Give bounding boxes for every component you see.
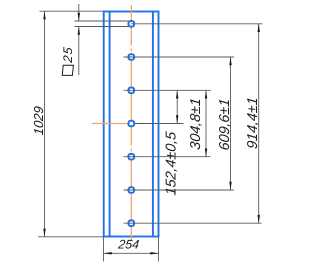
dimension line square-25 upper shaft xyxy=(78,4,80,21)
arrowhead square-25 lower xyxy=(78,27,80,35)
svg-text:152,4±0,5: 152,4±0,5 xyxy=(164,131,180,196)
arrowhead 1029 bottom xyxy=(43,229,45,237)
svg-text:254: 254 xyxy=(117,237,140,251)
svg-text:609,6±1: 609,6±1 xyxy=(217,98,233,151)
hole 3 xyxy=(129,88,135,94)
dimension line 609,6±1 (hole 2 to hole 6) xyxy=(230,57,232,190)
svg-text:304,8±1: 304,8±1 xyxy=(188,97,204,150)
square symbol of hole size label xyxy=(62,65,73,75)
arrowhead 609,6 top xyxy=(229,57,231,65)
arrowhead 254 left xyxy=(104,252,112,254)
horizontal centerline of hole 4 xyxy=(92,123,143,125)
extension line: hole 3 center xyxy=(124,89,211,91)
arrowhead 609,6 bottom xyxy=(229,182,231,190)
extension line: hole 1 square top edge xyxy=(75,20,132,22)
extension line: hole 4 center xyxy=(135,123,184,125)
extension line: part top edge xyxy=(40,10,104,12)
arrowhead 254 right xyxy=(150,252,158,254)
arrowhead 152,4 bottom xyxy=(176,115,178,123)
dimension line 1029 xyxy=(44,11,46,237)
hole 4 xyxy=(129,121,135,127)
extension line: part bottom edge xyxy=(38,236,104,238)
extension line: part left edge (254) xyxy=(103,237,105,262)
dimension line 254 xyxy=(104,252,159,254)
svg-text:25: 25 xyxy=(61,46,75,65)
hole 5 xyxy=(129,154,135,160)
extension line: hole 5 center xyxy=(124,156,211,158)
extension line: hole 6 center xyxy=(124,189,234,191)
arrowhead 304,8 top xyxy=(205,90,207,98)
extension line: hole 1 center xyxy=(131,23,263,25)
arrowhead square-25 upper xyxy=(78,13,80,21)
svg-text:1029: 1029 xyxy=(31,105,46,135)
hole 6 xyxy=(129,187,135,193)
arrowhead 152,4 top xyxy=(176,90,178,98)
vertical centerline through holes xyxy=(130,5,132,241)
dimension line 914,4±1 (hole 1 to hole 7) xyxy=(258,24,260,223)
arrowhead 914,4 top xyxy=(258,24,260,32)
extension line: hole 2 center xyxy=(124,56,235,58)
dimension line square-25 lower shaft xyxy=(78,27,80,76)
hole 2 xyxy=(129,54,135,60)
svg-text:914,4±1: 914,4±1 xyxy=(245,96,261,149)
bend line right xyxy=(152,12,154,237)
dimension line 152,4±0,5 (hole 3 to hole 4) xyxy=(176,90,178,123)
arrowhead 914,4 bottom xyxy=(258,215,260,223)
hole 1 (square 25) xyxy=(129,21,135,27)
bend line left xyxy=(109,12,111,237)
part outline (channel strip 254x1029) xyxy=(104,12,159,237)
arrowhead 304,8 bottom xyxy=(205,149,207,157)
hole 7 xyxy=(129,220,135,226)
arrowhead 1029 top xyxy=(43,11,45,19)
extension line: part right edge (254) xyxy=(158,237,160,262)
extension line: hole 7 center xyxy=(124,222,262,224)
extension line: hole 1 square bottom edge xyxy=(75,26,132,28)
dimension line 304,8±1 (hole 3 to hole 5) xyxy=(205,90,207,156)
